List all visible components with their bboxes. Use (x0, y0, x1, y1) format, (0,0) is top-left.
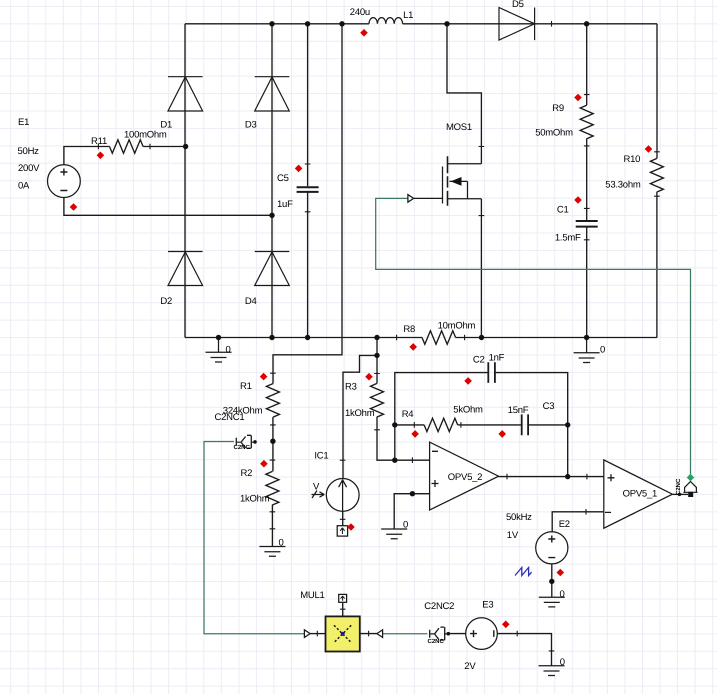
svg-text:0: 0 (560, 589, 565, 600)
svg-text:0A: 0A (18, 180, 30, 191)
svg-text:D2: D2 (160, 296, 172, 307)
svg-text:C3: C3 (543, 401, 555, 412)
node E1-bridge junction (269, 213, 274, 218)
capacitor C2 plates (488, 362, 495, 383)
op-amp OPV5_2 (430, 442, 499, 510)
probe marker at R9 (574, 94, 582, 102)
svg-text:R2: R2 (241, 468, 253, 479)
op-amp OPV5_1 (604, 460, 673, 528)
diode D2 (168, 252, 203, 286)
svg-text:0: 0 (403, 519, 408, 530)
waveform icon at E2 (515, 568, 532, 576)
svg-text:53.3ohm: 53.3ohm (605, 179, 641, 190)
wire node line x342 from top rail down across bottom rail (273, 24, 342, 384)
wire E3 right lead to ground (497, 634, 551, 666)
svg-text:1uF: 1uF (277, 199, 293, 210)
wire bottom rail left segment (185, 337, 422, 339)
node E2 ground (549, 579, 554, 584)
probe marker at IC1 (347, 523, 355, 531)
svg-text:100mOhm: 100mOhm (124, 130, 167, 141)
svg-text:C2NC: C2NC (428, 638, 445, 645)
node C2NC2 pin (447, 632, 451, 636)
svg-text:C2NC1: C2NC1 (215, 412, 245, 423)
wire green gate drive from OPV5_1 output connector (376, 198, 691, 475)
svg-text:D5: D5 (512, 0, 524, 10)
probe marker at R8 (409, 343, 417, 351)
wire bridge left leg (184, 24, 186, 338)
svg-text:0: 0 (279, 537, 284, 548)
svg-text:C2: C2 (473, 355, 485, 366)
svg-text:50kHz: 50kHz (506, 512, 532, 523)
svg-text:240u: 240u (350, 7, 370, 18)
svg-text:1kOhm: 1kOhm (240, 494, 270, 505)
wire R3 branch from bottom rail (376, 338, 378, 384)
resistor R11 zigzag (110, 140, 144, 153)
current source IC1 (312, 479, 360, 537)
probe marker at E1 (70, 203, 78, 211)
wire C2 right to output node (495, 373, 568, 477)
svg-text:V: V (313, 482, 320, 493)
wire bridge right leg (271, 24, 273, 338)
wire R10 branch top lead (656, 24, 658, 159)
node bottom rail C5 (305, 335, 310, 340)
diode D4 (255, 252, 290, 286)
resistor R4 zigzag (424, 418, 458, 431)
probe marker at E2 (557, 569, 565, 577)
ground at E2 (539, 597, 565, 607)
wire opamp2 plus input to ground (394, 494, 429, 529)
node bottom rail R3 (374, 335, 379, 340)
probe marker at R11 (97, 152, 105, 160)
svg-text:MUL1: MUL1 (300, 590, 324, 601)
svg-text:1.5mF: 1.5mF (555, 232, 581, 243)
node R4 left (392, 422, 397, 427)
wire E2 bottom to ground (551, 564, 553, 597)
svg-text:C2NC: C2NC (675, 478, 682, 495)
ground at E3 (539, 666, 565, 676)
diode D3 (255, 77, 290, 111)
node top rail C5 (305, 21, 310, 26)
wire MUL1 top pin (342, 602, 344, 616)
node bottom rail MOS source (479, 335, 484, 340)
svg-text:E2: E2 (559, 519, 570, 530)
svg-text:50mOhm: 50mOhm (535, 128, 573, 139)
node top rail MOS drain (444, 21, 449, 26)
wire MOS source to bottom rail (480, 199, 482, 338)
connector C2NC1 (236, 435, 253, 448)
GREEN WIRES (204, 198, 691, 633)
svg-text:C1: C1 (557, 204, 569, 215)
svg-text:1nF: 1nF (489, 353, 505, 364)
wire MOS drain from top rail (447, 24, 481, 164)
svg-text:L1: L1 (403, 10, 413, 21)
node top rail L1 input (339, 21, 344, 26)
diode D5 (499, 8, 535, 41)
capacitor C5 plates (297, 187, 319, 192)
node bottom rail D4 leg (269, 335, 274, 340)
node bottom rail C1 (584, 335, 589, 340)
wire R2 top lead (272, 441, 274, 471)
node opamp2 output feedback (565, 474, 570, 479)
probe marker at C2 (464, 377, 472, 385)
wire R9 branch top lead (586, 24, 588, 105)
probe marker at R4 (411, 430, 419, 438)
svg-text:OPV5_2: OPV5_2 (448, 472, 482, 483)
node C3 right (565, 422, 570, 427)
svg-text:R3: R3 (345, 382, 357, 393)
ground at bottom rail right (574, 338, 600, 363)
resistor R3 zigzag (371, 383, 384, 417)
svg-text:R9: R9 (552, 103, 564, 114)
svg-text:1V: 1V (507, 530, 519, 541)
svg-text:MOS1: MOS1 (446, 122, 472, 133)
inductor L1 (369, 18, 403, 24)
wire C5 branch bottom (307, 192, 309, 337)
svg-text:15nF: 15nF (508, 405, 529, 416)
svg-text:50Hz: 50Hz (18, 146, 40, 157)
transistor MOS1 (408, 156, 482, 205)
probe marker at E3 (502, 621, 510, 629)
node opamp1 output pin (678, 493, 681, 496)
svg-text:D3: D3 (245, 120, 257, 131)
probe marker at L1 (360, 29, 368, 37)
probe marker at R2 (260, 460, 268, 468)
connector C2NC output (rotated) (683, 482, 697, 498)
svg-text:E3: E3 (482, 600, 493, 611)
svg-text:E1: E1 (18, 117, 29, 128)
svg-text:D4: D4 (245, 296, 257, 307)
resistor R10 zigzag (650, 158, 663, 192)
svg-text:IC1: IC1 (314, 451, 328, 462)
voltage source E3 (466, 618, 498, 650)
svg-text:0: 0 (560, 657, 565, 668)
voltage source E1 (48, 165, 81, 198)
probe marker at C1 (574, 196, 582, 204)
node C2NC1 pin (253, 440, 257, 444)
multiplier MUL1 (304, 594, 382, 651)
node opamp2 minus (392, 458, 397, 463)
wire R1 bottom lead (272, 417, 274, 441)
svg-text:R1: R1 (240, 381, 252, 392)
wire R2 bottom lead to ground (271, 505, 273, 547)
green diamond at output connector (687, 474, 695, 482)
svg-text:10mOhm: 10mOhm (438, 321, 476, 332)
svg-text:R10: R10 (624, 154, 641, 165)
wire IC1 feed jog (343, 355, 377, 478)
node R3-IC1 junction (374, 353, 379, 358)
resistor R2 zigzag (266, 471, 279, 505)
wire E1 bottom lead to bridge right leg (64, 198, 272, 216)
ground at OPV5_2 plus input (381, 529, 407, 539)
wire C1 bottom lead (586, 228, 588, 338)
svg-text:R4: R4 (402, 409, 414, 420)
wire R4 to C3 (458, 424, 522, 426)
node opamp2 plus (410, 491, 415, 496)
wire top rail left segment (185, 23, 369, 25)
wire R10 bottom lead (656, 192, 658, 338)
wire MUL1 right output (360, 633, 377, 635)
node top rail R9 (584, 21, 589, 26)
svg-text:C2NC: C2NC (234, 444, 251, 451)
wire green MUL1 output to C2NC2 (383, 633, 428, 635)
diode D1 (168, 77, 203, 111)
wire C2 top loop (395, 373, 489, 461)
capacitor C1 plates (576, 221, 598, 227)
probe marker at R1 (260, 373, 268, 381)
wire top rail right segment (403, 23, 657, 25)
wire E1 top lead (64, 147, 110, 165)
probe marker at C3 (498, 430, 506, 438)
ground at bridge bottom (206, 338, 232, 363)
wire R9 to C1 (586, 139, 588, 221)
svg-text:0: 0 (600, 345, 605, 356)
node bottom rail ground (216, 335, 221, 340)
wire bottom rail right segment (456, 337, 657, 339)
svg-text:D1: D1 (160, 120, 172, 131)
MARKERS (70, 29, 695, 628)
wire opamp1 minus input to E2 (552, 512, 604, 532)
capacitor C3 plates (522, 414, 528, 435)
wire E3 left lead (450, 633, 466, 635)
wire MUL1 left input (310, 633, 325, 635)
node R11-bridge junction (183, 144, 188, 149)
wire green C2NC1 to MUL1 input (204, 442, 304, 634)
node R1-R2-C2NC1 junction (270, 439, 275, 444)
svg-text:2V: 2V (464, 661, 476, 672)
wire opamp1 output (672, 493, 688, 495)
svg-text:C5: C5 (277, 173, 289, 184)
svg-text:5kOhm: 5kOhm (453, 405, 483, 416)
resistor R9 zigzag (580, 105, 593, 139)
node top rail D3 leg (269, 21, 274, 26)
wire R3 bottom to opamp minus node (377, 417, 430, 461)
ground at R2 (259, 547, 285, 557)
svg-text:0: 0 (226, 344, 231, 355)
svg-text:1kOhm: 1kOhm (345, 408, 375, 419)
wire R11 to bridge (143, 146, 186, 148)
voltage source E2 (536, 532, 568, 564)
resistor R8 zigzag (422, 331, 456, 344)
wire C5 branch top (307, 24, 309, 187)
pin ticks (98, 21, 659, 651)
svg-text:OPV5_1: OPV5_1 (623, 489, 657, 500)
wire opamp2 output line (499, 476, 604, 478)
svg-text:C2NC2: C2NC2 (424, 601, 454, 612)
wire R4 left lead (395, 424, 424, 426)
connector C2NC2 (430, 627, 447, 640)
svg-text:200V: 200V (18, 163, 40, 174)
wire IC1 bottom lead (342, 511, 344, 525)
resistor R1 zigzag (266, 384, 279, 418)
probe marker at R3 (365, 373, 373, 381)
wire C3 right lead (528, 424, 568, 426)
svg-text:R8: R8 (403, 324, 415, 335)
probe marker at C5 (295, 165, 303, 173)
probe marker at R10 (645, 145, 653, 153)
svg-text:R11: R11 (91, 136, 107, 147)
